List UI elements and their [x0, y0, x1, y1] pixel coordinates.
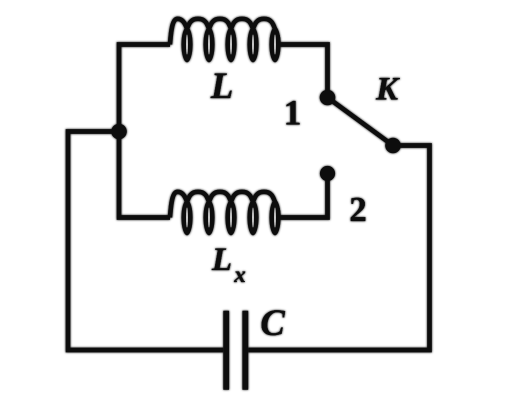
svg-text:L: L — [210, 66, 234, 107]
svg-text:C: C — [260, 302, 285, 343]
svg-text:L: L — [211, 242, 232, 278]
svg-text:K: K — [375, 72, 400, 108]
svg-text:1: 1 — [284, 93, 302, 133]
svg-text:x: x — [233, 262, 246, 287]
svg-text:2: 2 — [349, 190, 367, 229]
